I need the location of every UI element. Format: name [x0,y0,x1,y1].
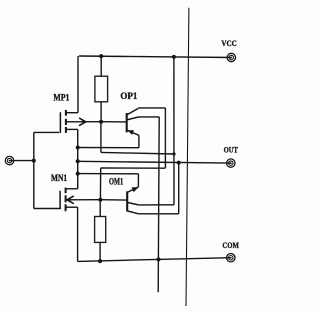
svg-text:OP1: OP1 [120,91,137,101]
svg-text:OUT: OUT [224,144,239,154]
svg-text:VCC: VCC [221,38,236,48]
svg-text:OM1: OM1 [109,177,124,187]
svg-text:COM: COM [222,240,239,250]
svg-text:MP1: MP1 [53,93,69,103]
svg-text:MN1: MN1 [51,173,68,183]
